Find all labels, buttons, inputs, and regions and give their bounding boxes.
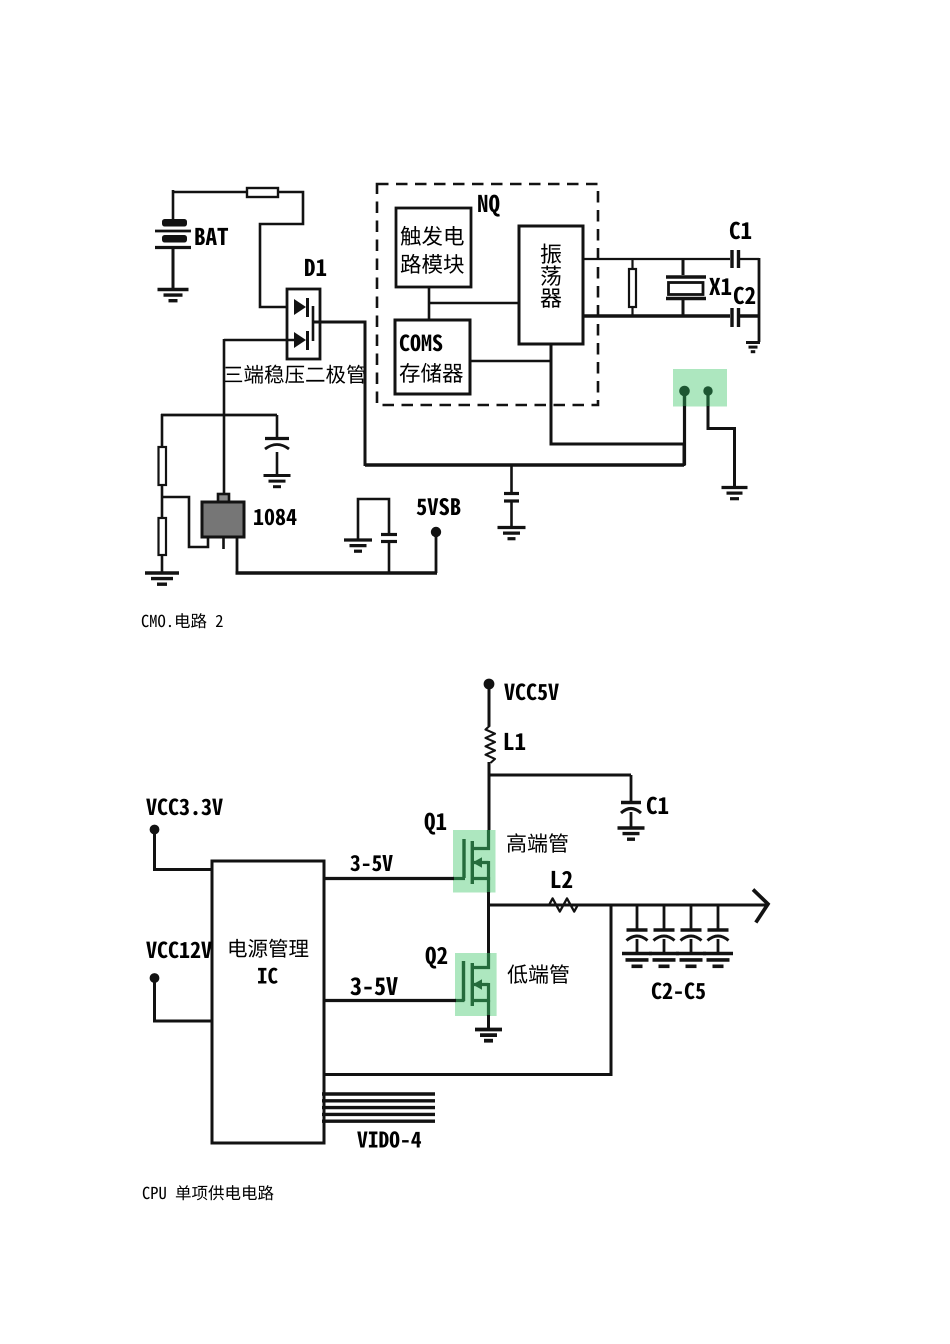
- wire L1 to Q1: [488, 762, 491, 832]
- NQ module dashed box: [377, 184, 598, 405]
- 1084 middle pin: [222, 537, 225, 549]
- label osc 3: [541, 289, 562, 308]
- wire COMS to osc bottom: [470, 360, 552, 363]
- oscillator box: [519, 226, 583, 344]
- resistor R1: [159, 447, 167, 485]
- label trigger line1: [401, 226, 464, 246]
- label C1: [730, 222, 751, 240]
- wire right rail to ground: [758, 258, 761, 342]
- capacitor bank C2-C5: [622, 905, 733, 966]
- capacitor C4 with ground: [358, 499, 397, 573]
- label osc 1: [541, 244, 561, 264]
- wire between resistors: [161, 485, 164, 518]
- ground below C3: [264, 476, 291, 487]
- mosfet Q2: [455, 953, 489, 1016]
- wire Q1 source to node: [487, 892, 490, 906]
- label NQ: [478, 195, 500, 217]
- label VCC5V: [504, 683, 559, 700]
- wire gate1: [324, 877, 454, 880]
- label 5VSB: [417, 498, 461, 515]
- label BAT: [195, 228, 228, 245]
- label 3-5V lower: [350, 977, 397, 995]
- wire from BAT plus to fuse: [172, 190, 248, 219]
- ground below R2: [145, 573, 179, 584]
- small ground right: [746, 343, 760, 352]
- wire D1 output to node: [313, 322, 365, 466]
- label regulator name: [224, 365, 365, 384]
- label C2-C5: [652, 982, 705, 999]
- wire D1 anode down to 1084: [223, 339, 226, 495]
- capacitor C5: [504, 465, 519, 527]
- resistor R2: [159, 518, 167, 555]
- capacitor C1 out: [621, 775, 641, 828]
- highlight Q1: [453, 830, 496, 893]
- wire left divider: [161, 414, 164, 447]
- inductor L1: [486, 726, 496, 763]
- wire Q1 node to Q2 drain: [487, 905, 490, 955]
- wire D1 lower anode: [224, 339, 294, 342]
- feedback wire: [324, 905, 611, 1075]
- label osc 2: [541, 266, 561, 286]
- wire trigger to oscillator: [429, 302, 519, 305]
- label COMS: [400, 334, 442, 351]
- label Q2: [426, 947, 448, 969]
- jumper highlight: [673, 369, 727, 407]
- wire osc bottom down: [551, 344, 684, 444]
- wire from fuse to D1 anode: [260, 192, 303, 307]
- ground below Q2: [475, 1030, 502, 1041]
- mosfet Q1: [453, 830, 489, 893]
- caption circuit 2: [143, 1185, 274, 1200]
- VIDO-4 bus: [322, 1094, 435, 1121]
- ground below jumper: [722, 488, 748, 499]
- inductor L2: [549, 898, 578, 911]
- label X1: [709, 278, 731, 295]
- diode D1: [287, 289, 320, 359]
- wire VCC5V to L1: [488, 687, 491, 726]
- label trigger line2: [401, 254, 464, 274]
- 1084 output pin to rail: [236, 537, 239, 573]
- label L1: [505, 733, 525, 750]
- IC box: [212, 861, 324, 1143]
- highlight Q2: [455, 953, 497, 1016]
- label memory: [400, 363, 463, 383]
- resistor R3: [629, 259, 636, 316]
- caption circuit 1: [142, 613, 223, 628]
- wire osc out top: [583, 258, 730, 260]
- capacitor C1 plates: [732, 250, 759, 268]
- node 5VSB: [431, 527, 441, 573]
- regulator 1084 body: [202, 494, 244, 537]
- jumper pin right: [703, 386, 734, 487]
- wire Q2 source to ground: [487, 1015, 490, 1029]
- battery BAT: [155, 219, 191, 289]
- label VCC12V: [146, 941, 212, 958]
- COMS box: [395, 320, 470, 394]
- crystal X1: [666, 259, 706, 316]
- node wire horizontal: [161, 414, 277, 417]
- trigger module box: [396, 208, 471, 287]
- label D1: [305, 259, 326, 276]
- label IC line1: [230, 939, 309, 958]
- wire VCC3.3V to IC: [155, 832, 213, 870]
- arrow output: [753, 890, 768, 923]
- output node wire: [487, 904, 767, 907]
- wire osc out bottom: [583, 314, 730, 318]
- label VCC3.3V: [146, 798, 223, 815]
- wire branch to C1: [489, 774, 631, 777]
- ground below C1 out: [618, 828, 645, 839]
- node VCC12V: [150, 973, 160, 983]
- label L2: [552, 871, 572, 888]
- wire R2 to ground: [161, 555, 164, 573]
- label high-side: [507, 833, 568, 852]
- wire trigger to COMS: [428, 287, 431, 320]
- 5VSB rail: [236, 571, 438, 574]
- wire gate2: [324, 999, 456, 1002]
- label 3-5V upper: [350, 855, 392, 871]
- label VIDO-4: [357, 1131, 421, 1147]
- wire VCC12V to IC: [155, 980, 213, 1021]
- label Q1: [425, 813, 447, 835]
- ground below C5: [498, 528, 526, 539]
- wire node to green pin: [365, 444, 684, 466]
- capacitor C3: [265, 415, 289, 475]
- node VCC3.3V: [150, 825, 160, 835]
- capacitor C2 plates: [732, 308, 759, 327]
- label C1 out: [647, 797, 668, 815]
- label low-side: [507, 964, 568, 983]
- label 1084: [254, 509, 296, 525]
- jumper pin left: [679, 386, 690, 465]
- ground of C4: [344, 540, 372, 551]
- label C2: [734, 287, 755, 305]
- label IC line2: [258, 968, 278, 984]
- fuse F1 on BAT wire: [247, 188, 278, 197]
- ground below BAT: [158, 290, 189, 301]
- node VCC5V: [484, 679, 495, 690]
- wire divider tap to 1084 adj: [162, 497, 208, 547]
